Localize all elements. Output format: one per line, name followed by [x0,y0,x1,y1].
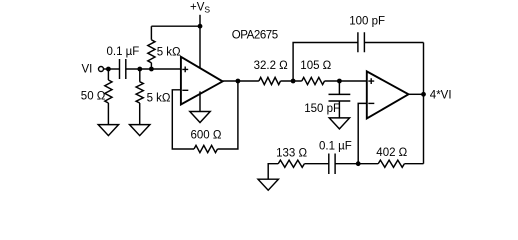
node H junction dot (U2 inverting tap) [356,161,361,166]
wire output branch to R7 [404,163,423,165]
wire U1 output to R5 [223,80,259,82]
wire output down to bottom rail [423,43,425,164]
wire 600 ohm to U1 output [218,81,238,149]
wire +Vs stub up [199,15,201,26]
resistor R8 133 ohm [278,160,304,167]
wire R8 to ground corner [268,164,278,180]
svg-text:4*VI: 4*VI [430,90,452,102]
svg-text:5 kΩ: 5 kΩ [147,92,171,104]
node C junction dot (5k upper tap) [149,67,154,72]
op-amp U2 triangle [367,71,409,118]
resistor R3 5 kohm upper (with leads) [148,26,155,69]
U2 plus symbol [368,78,374,84]
ground under R2 [130,125,150,136]
svg-text:0.1 µF: 0.1 µF [107,46,140,58]
node D feedback tap dot [236,79,241,84]
wire U1 inverting input to feedback [172,90,194,149]
node E junction dot (100 pF tap) [291,79,296,84]
U1 plus symbol [182,67,188,73]
resistor R4 600 ohm [194,145,218,152]
svg-text:100 pF: 100 pF [349,16,385,28]
resistor R1 50 ohm (with leads) [105,69,112,125]
wire U2 output [409,93,424,95]
capacitor C1 0.1 uF plates [120,59,126,79]
resistor R6 105 ohm [302,77,325,84]
capacitor C4 0.1 uF plates [329,154,335,175]
wire C4 to R8 [304,163,328,165]
resistor R5 32.2 ohm [259,77,281,84]
capacitor C2 150 pF plates [329,94,351,101]
wire C3 right to output branch [364,42,423,44]
wire R6 to U2 + input [325,80,367,82]
resistor R2 5 kohm lower (with leads) [136,69,143,125]
svg-text:OPA2675: OPA2675 [232,29,278,41]
wire R5 to R6 [281,80,302,82]
capacitor C3 100 pF plates [358,32,365,52]
svg-text:402 Ω: 402 Ω [376,147,407,159]
ground under C2 [329,118,349,129]
wire R3 top to +Vs node [151,25,200,27]
ground under U1 [190,112,210,123]
node +Vs junction dot [198,24,203,29]
svg-text:105 Ω: 105 Ω [300,60,331,72]
U1 minus symbol [182,89,188,91]
node G output 4*VI dot [421,92,426,97]
op-amp U1 triangle [181,57,223,105]
node VI input terminal [99,67,104,72]
wire +Vs down to U1 supply pin [199,26,201,68]
wire U2 inverting input down [358,103,367,163]
svg-text:600 Ω: 600 Ω [191,130,222,142]
resistor R7 402 ohm [378,160,404,167]
ground at bottom left [258,179,278,190]
wire C2 to ground [338,101,340,118]
wire node E up and right to C3 [293,43,358,82]
wire terminal to C1 [104,68,120,70]
svg-text:32.2 Ω: 32.2 Ω [254,60,289,72]
U2 minus symbol [368,102,374,104]
node A junction dot (50 ohm tap) [106,67,111,72]
node F junction dot (150 pF tap) [337,79,342,84]
ground under R1 [98,125,118,136]
node B junction dot (5k lower tap) [137,67,142,72]
svg-text:+VS: +VS [190,1,210,14]
svg-text:0.1 µF: 0.1 µF [319,141,352,153]
wire U1 negative supply stem [199,91,201,111]
svg-text:150 pF: 150 pF [304,103,340,115]
wire node F down to C2 [338,81,340,94]
svg-text:VI: VI [82,64,93,76]
svg-text:5 kΩ: 5 kΩ [157,47,181,59]
wire C1 to op-amp U1 + input [126,68,181,70]
wire R7 to C4 [335,163,378,165]
svg-text:50 Ω: 50 Ω [81,90,106,102]
svg-text:133 Ω: 133 Ω [276,147,307,159]
